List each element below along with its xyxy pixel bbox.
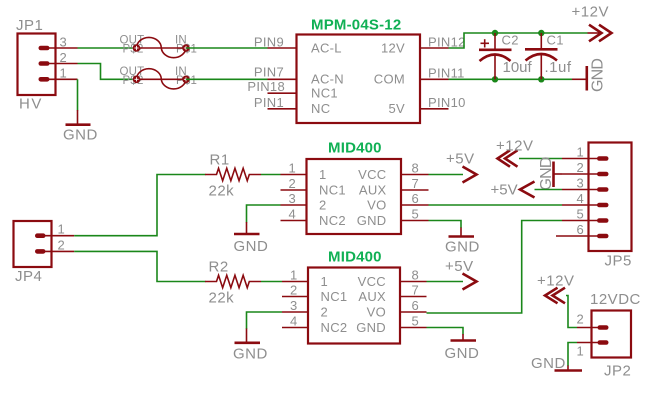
svg-text:AC-L: AC-L [311,40,342,55]
svg-text:GND: GND [531,355,566,372]
svg-text:3: 3 [60,35,68,50]
svg-text:2: 2 [576,160,584,175]
ground GND1 below JP1 [66,110,91,125]
wire U2 pin 5 to ground GND4 [429,221,462,229]
svg-text:GND: GND [63,127,98,144]
svg-text:GND: GND [233,346,268,363]
svg-text:GND: GND [357,213,387,228]
resistor R2 [205,275,261,287]
svg-text:AUX: AUX [359,183,387,198]
connector JP5 body [589,143,632,252]
wire U3 pin 8 to +5V [427,281,464,283]
U1 pin PIN12 [420,47,449,49]
svg-text:1: 1 [288,161,296,176]
junction C1 bottom [538,76,544,82]
svg-text:2: 2 [321,305,329,320]
svg-text:+12V: +12V [572,4,609,21]
wire U2 pin 8 to +5V [429,174,464,176]
power +5V arrow at U3 pin 8 [463,274,477,290]
svg-text:2: 2 [319,198,327,213]
U3 pin 7 [400,296,427,298]
svg-text:2: 2 [288,176,296,191]
wire U2 pin 3 to ground GND3 [247,205,281,223]
svg-text:4: 4 [576,191,584,206]
U3 pin 6 [400,311,427,313]
power +12V arrow at JP5 pin 1 [498,150,518,166]
C2 polarity + mark [481,39,490,47]
ground GND6 [235,329,261,343]
svg-text:GND: GND [234,238,269,255]
svg-text:4: 4 [290,314,298,329]
capacitor C2 [479,33,512,79]
svg-text:NC1: NC1 [319,183,346,198]
svg-text:VCC: VCC [358,167,386,182]
ground GND5 at JP5 pin 2 [554,162,563,188]
svg-text:NC2: NC2 [319,213,346,228]
IC U2 MID400 body [307,159,402,234]
ground GND3 [234,222,260,234]
U1 pin PIN7 [268,78,297,80]
svg-text:VO: VO [367,305,386,320]
svg-text:GND: GND [445,239,480,256]
svg-text:12V: 12V [381,40,405,55]
svg-text:1: 1 [319,167,327,182]
U2 pin 1 [281,174,307,176]
IC U3 MID400 body [308,268,400,344]
wire +12V to JP2 pin 2 [566,296,577,328]
JP4 pin 2 [35,249,74,254]
svg-text:NC1: NC1 [321,289,348,304]
wire MPM PIN12 to +12V rail [449,33,588,48]
svg-text:+12V: +12V [496,138,533,155]
svg-text:3: 3 [290,298,298,313]
power +5V arrow at JP5 pin 3 [520,182,535,198]
U3 pin 3 [282,311,308,313]
svg-text:GND: GND [445,345,480,362]
JP2 pin 2 [577,325,609,330]
U2 pin 4 [281,220,307,222]
svg-text:7: 7 [412,283,420,298]
JP5 pin 5 [562,218,609,223]
svg-text:4: 4 [288,207,296,222]
wire JP1 pin 1 to ground GND1 [77,79,79,110]
IC U1 MPM-04S-12 body [297,35,421,124]
svg-text:MID400: MID400 [328,249,382,266]
svg-text:2: 2 [60,50,68,65]
wire fuse F1 to MPM PIN9 [186,47,268,49]
svg-text:JP2: JP2 [604,363,631,380]
connector JP1 body [18,34,56,96]
U3 pin 5 [400,327,427,329]
U2 pin 3 [281,204,307,206]
wire U2 pin 6 to JP5 pin 4 [429,204,563,206]
svg-text:R1: R1 [210,152,230,169]
svg-text:PIN7: PIN7 [254,65,284,80]
svg-text:NC: NC [311,101,330,116]
JP1 pin 3 [39,46,78,51]
svg-text:1: 1 [60,66,68,81]
svg-text:+5V: +5V [445,258,474,275]
junction C2 bottom [492,76,498,82]
svg-text:2: 2 [290,283,298,298]
power +5V arrow at U2 pin 8 [463,167,477,183]
wire U3 pin 3 to ground GND6 [247,312,283,329]
svg-text:7: 7 [412,176,420,191]
JP2 pin 1 [577,340,609,345]
fuse F2 [133,69,190,89]
svg-text:PIN1: PIN1 [254,95,284,110]
svg-text:.1uf: .1uf [545,59,572,76]
junction C1 top [538,30,544,36]
U1 pin PIN9 [268,47,297,49]
U1 pin PIN18 [268,92,297,94]
svg-text:+5V: +5V [491,182,518,199]
ground GND7 [451,334,477,341]
svg-text:22k: 22k [209,183,235,200]
svg-text:GND: GND [590,59,607,92]
ground GND4 [449,228,475,237]
svg-text:R2: R2 [209,259,229,276]
svg-text:5V: 5V [388,101,405,116]
wire U3 pin 5 to ground GND7 [427,328,464,335]
U1 pin PIN1 [268,108,297,110]
fuse F1 [133,37,190,57]
U2 pin 2 [281,189,307,191]
wire R1 to U2 pin 1 [261,174,281,176]
U3 pin 1 [282,281,308,283]
svg-text:NC1: NC1 [311,86,338,101]
JP5 pin 1 [562,156,609,161]
svg-text:PIN9: PIN9 [254,35,284,50]
wire JP5 pin 5 to U3 pin 6 [427,221,563,314]
JP5 pin 6 [556,234,609,239]
svg-text:10uf: 10uf [503,59,533,76]
svg-text:PIN10: PIN10 [428,95,466,110]
svg-text:AUX: AUX [358,289,386,304]
svg-text:8: 8 [412,161,420,176]
capacitor C1 [525,33,558,79]
U2 pin 8 [401,174,429,176]
connector JP4 body [14,221,52,267]
wire JP1 pin 2 to fuse F2 [78,64,137,80]
wire +12V to JP5 pin 1 [519,158,562,160]
resistor R1 [205,168,261,180]
svg-text:12VDC: 12VDC [590,291,641,308]
wire fuse F2 to MPM PIN7 [186,78,268,80]
svg-text:1: 1 [290,268,298,283]
U2 pin 5 [401,220,429,222]
svg-text:GND: GND [356,320,386,335]
wire JP1 pin 3 to fuse F1 [78,47,137,49]
connector JP2 body [592,311,632,358]
JP5 pin 3 [562,187,609,192]
U3 pin 2 [282,296,308,298]
svg-text:COM: COM [374,72,405,87]
svg-text:22k: 22k [209,290,235,307]
ground GND2 right of C1 [572,66,587,91]
svg-text:1: 1 [321,274,329,289]
U2 pin 6 [401,204,429,206]
svg-text:PIN18: PIN18 [247,79,285,94]
junction C2 top [492,30,498,36]
JP5 pin 4 [562,203,609,208]
svg-text:5: 5 [412,207,420,222]
wire +5V to JP5 pin 3 [535,189,563,191]
svg-text:AC-N: AC-N [311,72,344,87]
svg-text:3: 3 [576,176,584,191]
svg-text:3: 3 [288,191,296,206]
wire JP2 pin 1 to ground GND8 [568,343,577,367]
svg-text:2: 2 [58,238,66,253]
svg-text:C2: C2 [502,32,519,47]
svg-text:C1: C1 [547,32,564,47]
svg-text:JP4: JP4 [15,268,42,285]
svg-text:MPM-04S-12: MPM-04S-12 [311,17,401,34]
svg-text:5: 5 [412,314,420,329]
svg-text:6: 6 [576,222,584,237]
wire MPM PIN11 to ground rail [449,78,573,80]
svg-text:VCC: VCC [358,274,386,289]
U1 pin PIN11 [420,78,449,80]
U2 pin 7 [401,189,429,191]
U3 pin 4 [282,327,308,329]
wire JP4 pin 1 to resistor R1 [74,175,205,236]
svg-text:VO: VO [367,198,386,213]
svg-text:JP1: JP1 [16,17,43,34]
svg-text:JP5: JP5 [605,253,632,270]
svg-text:8: 8 [412,268,420,283]
svg-text:+12V: +12V [537,273,574,290]
svg-text:HV: HV [19,96,43,113]
U1 pin PIN10 [420,108,449,110]
svg-text:2: 2 [576,312,584,327]
svg-text:6: 6 [412,298,420,313]
svg-text:5: 5 [576,207,584,222]
svg-text:GND: GND [538,157,555,190]
power +12V arrow at JP2 pin 2 [545,288,565,304]
svg-text:NC2: NC2 [321,320,348,335]
svg-text:PIN11: PIN11 [428,66,465,81]
JP5 pin 2 [562,172,609,177]
power +12V arrow top right [589,25,612,42]
svg-text:6: 6 [412,191,420,206]
wire JP4 pin 2 to resistor R2 [74,251,205,281]
svg-text:MID400: MID400 [328,140,382,157]
U3 pin 8 [400,281,427,283]
JP1 pin 1 [39,77,78,82]
JP1 pin 2 [39,61,78,66]
JP4 pin 1 [35,233,74,238]
ground GND8 [555,366,583,371]
svg-text:1: 1 [58,222,66,237]
svg-text:1: 1 [576,344,584,359]
wire R2 to U3 pin 1 [261,281,282,283]
svg-text:1: 1 [576,145,584,160]
svg-text:+5V: +5V [446,151,475,168]
